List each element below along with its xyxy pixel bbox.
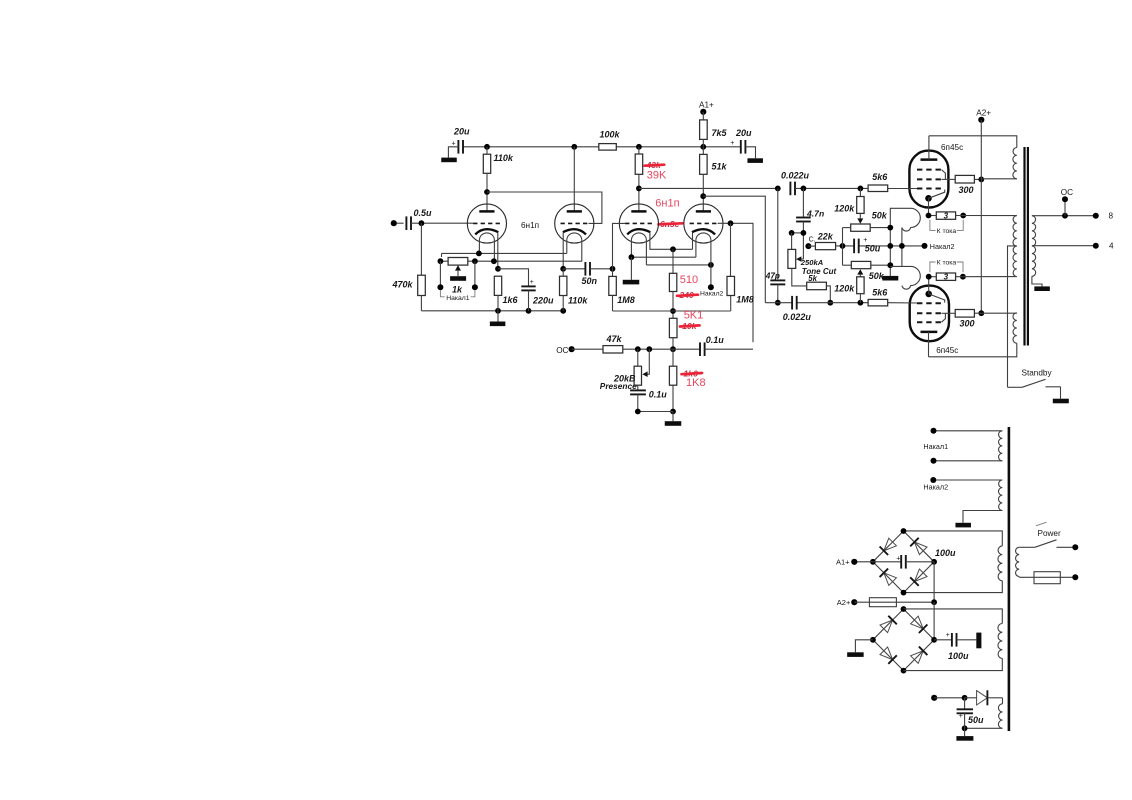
- svg-text:5k: 5k: [808, 274, 817, 283]
- resistor R 5K1 (was 10k): [669, 318, 677, 337]
- resistor R 5k6 lower: [868, 287, 888, 306]
- wire: ground bus right: [889, 208, 891, 276]
- svg-text:OC: OC: [556, 346, 568, 355]
- heater V2a: [631, 233, 646, 265]
- resistor R 7k5: [700, 112, 728, 140]
- wire: V2b grid: [718, 223, 753, 342]
- wire: secondary 8ohm: [1032, 215, 1096, 217]
- resistor R 1M8 right: [727, 223, 754, 304]
- wire: cathode node to 220u: [498, 269, 529, 287]
- wire: pot left bus: [842, 228, 844, 266]
- node: feedback: [670, 346, 676, 352]
- node: tone pot top b: [801, 230, 807, 236]
- node: rail/1k6: [495, 308, 501, 314]
- capacitor C 0.022u bottom: [783, 296, 812, 322]
- terminal: Nakal2 PI: [700, 265, 724, 298]
- wire: 110k to rail: [562, 296, 564, 311]
- diode D6 NE: [911, 616, 928, 633]
- wire: V1b plate: [573, 147, 575, 212]
- svg-text:5k6: 5k6: [872, 172, 888, 182]
- wire: g1 upper: [888, 188, 917, 190]
- node: pot left: [438, 258, 444, 264]
- wire: V1a plate to V1b grid: [487, 192, 602, 223]
- wire: bias line: [836, 245, 925, 247]
- svg-text:39K: 39K: [647, 170, 667, 182]
- triode V2a 6n1p: [619, 204, 658, 243]
- svg-text:3: 3: [944, 273, 949, 282]
- fuse A2+: [869, 598, 896, 607]
- label: crossed 240: [677, 290, 698, 300]
- node: plate line/0.022u top: [775, 186, 781, 192]
- node: presence wiper: [646, 346, 652, 352]
- capacitor C 0.1u coupling: [700, 335, 724, 356]
- node: cathode lower: [926, 274, 932, 280]
- svg-text:4.7n: 4.7n: [806, 208, 824, 218]
- svg-text:Накал2: Накал2: [700, 291, 724, 298]
- svg-text:100u: 100u: [935, 548, 956, 558]
- svg-text:51k: 51k: [712, 161, 728, 171]
- node: bias/50u: [962, 695, 968, 701]
- diode D3 SW: [880, 569, 897, 586]
- node: tail rail: [670, 308, 676, 314]
- wire: 110k to V1a plate: [486, 173, 488, 211]
- wire: 20u to ground: [448, 147, 458, 158]
- svg-text:+: +: [730, 140, 734, 147]
- wiper: upper 50k from 120k: [857, 213, 863, 223]
- switch Standby: [1008, 368, 1061, 387]
- capacitor C 50n: [582, 262, 598, 286]
- label: crossed 6p3s: [659, 219, 683, 229]
- svg-text:120k: 120k: [834, 204, 855, 214]
- svg-text:7k5: 7k5: [712, 128, 728, 138]
- node: pot right: [472, 258, 478, 264]
- triode V1a 6n1p: [467, 204, 506, 243]
- node: cathode upper: [926, 213, 932, 219]
- triode V1b 6n1p: [555, 204, 594, 243]
- svg-text:47p: 47p: [765, 271, 780, 280]
- svg-text:0.022u: 0.022u: [781, 170, 810, 180]
- core: power transformer: [1008, 427, 1011, 731]
- wire: bias line PSU: [934, 697, 964, 699]
- svg-text:0.022u: 0.022u: [783, 312, 812, 322]
- terminal: Nakal1 right: [472, 261, 478, 290]
- terminal: Nakal2 output: [922, 242, 955, 251]
- svg-text:+: +: [959, 713, 963, 720]
- wire: presence wiper arm: [642, 349, 649, 377]
- wiper: lower 50k from 120k: [857, 269, 863, 277]
- wire: V2a cathode: [650, 232, 693, 249]
- svg-text:20u: 20u: [735, 128, 752, 138]
- node: V2a heater gnd: [629, 254, 635, 260]
- svg-text:3: 3: [944, 211, 949, 220]
- node: bridge2 top: [901, 606, 907, 612]
- transformer OPT primary S3: [1013, 313, 1017, 343]
- wire: V2a plate line: [639, 187, 778, 189]
- svg-text:510: 510: [680, 274, 698, 286]
- wire: g1 lower: [888, 302, 917, 304]
- label: K toka upper: [930, 220, 963, 235]
- resistor R 22k: [808, 232, 835, 250]
- capacitor C 100u bridge1: [873, 548, 956, 568]
- wire: 5k to bottom line: [826, 286, 830, 303]
- resistor R 3 lower: [929, 273, 956, 282]
- node: bridge1 top: [901, 528, 907, 534]
- svg-text:250kA: 250kA: [800, 258, 823, 267]
- node: 47p/bottom line: [775, 300, 781, 306]
- svg-text:5K1: 5K1: [684, 310, 704, 322]
- resistor R 5k6 upper: [868, 172, 888, 191]
- svg-text:4: 4: [1109, 241, 1114, 250]
- resistor R 470k: [392, 275, 426, 295]
- wire: bridge2 top stub: [903, 608, 905, 610]
- wire: 1M8L to tail: [612, 295, 614, 311]
- svg-text:+: +: [896, 555, 900, 562]
- node: gnd bus/lower pot: [887, 262, 893, 268]
- resistor R 5k tone: [807, 274, 827, 290]
- svg-text:Presence: Presence: [600, 381, 637, 391]
- svg-text:+: +: [530, 279, 534, 286]
- diode D7 SW: [880, 647, 897, 664]
- svg-text:120k: 120k: [834, 283, 855, 293]
- resistor R 110k (V1a plate): [483, 147, 514, 174]
- svg-text:0.5u: 0.5u: [414, 208, 433, 218]
- potentiometer 50k upper: [843, 210, 891, 231]
- svg-text:470k: 470k: [392, 279, 414, 289]
- wire: C1 to grid node V1a: [411, 222, 473, 224]
- switch Power: [1019, 522, 1075, 547]
- wire: OC to 47k: [572, 348, 603, 350]
- wire: 0.1u to V2b grid line: [705, 348, 753, 350]
- terminal: 8 ohm: [1093, 212, 1114, 221]
- svg-text:A1+: A1+: [836, 558, 850, 567]
- node: V2b plate top: [700, 144, 706, 150]
- node: A2+/bridges: [931, 599, 937, 605]
- transformer OPT primary S2: [1013, 216, 1017, 277]
- svg-text:1K8: 1K8: [686, 377, 706, 389]
- svg-text:Standby: Standby: [1022, 368, 1053, 377]
- transformer winding HV2: [998, 624, 1002, 659]
- capacitor 20u decoupling right: [730, 128, 752, 154]
- resistor R 110k (V1b cathode): [560, 269, 589, 306]
- wire: tone pot bottom: [792, 268, 807, 286]
- node: rail/V1b plate: [571, 144, 577, 150]
- ground: pots bus: [882, 276, 898, 281]
- capacitor C 50u PSU: [957, 698, 984, 729]
- wire: 5K1 to fb node: [672, 338, 674, 350]
- resistor R 1M8 left: [609, 269, 635, 305]
- svg-text:A1+: A1+: [699, 101, 714, 110]
- transformer winding Nakal2: [998, 480, 1002, 511]
- wire: 20u to ground right: [745, 147, 755, 159]
- node: 1K8 gnd: [670, 409, 676, 415]
- svg-text:5k6: 5k6: [872, 287, 888, 297]
- wire: V1a cathode: [497, 232, 499, 268]
- svg-text:110k: 110k: [494, 153, 514, 163]
- svg-text:110k: 110k: [568, 295, 588, 305]
- svg-text:50u: 50u: [968, 715, 984, 725]
- diode D1 NW: [880, 538, 897, 555]
- ground: standby: [1053, 387, 1069, 404]
- resistor R 300 upper: [955, 175, 974, 194]
- wire: bottom grid line: [765, 302, 868, 304]
- wire: 220u to rail: [528, 290, 530, 310]
- node: bias/pots: [840, 243, 846, 249]
- svg-text:20u: 20u: [453, 127, 470, 137]
- node: A2+/screen lower: [978, 310, 984, 316]
- wire: 39K to V2a plate: [638, 174, 640, 211]
- transformer winding bias: [998, 698, 1002, 729]
- node: bottom grid/120k: [858, 300, 864, 306]
- node: heater B / V1a: [476, 251, 482, 257]
- terminal: Nakal1 left: [437, 261, 443, 290]
- wire: 300L to S3: [974, 312, 1016, 314]
- wire: 0.022u to 5k6 top: [795, 187, 868, 189]
- node: bridge1 bottom: [901, 590, 907, 596]
- capacitor C 220u: [521, 279, 554, 305]
- node: bridge2 left: [870, 637, 876, 643]
- label: 1K8 red: [686, 377, 706, 389]
- node: PI grid / 1M8: [610, 266, 616, 272]
- wire: 1K8 to gnd node: [672, 385, 674, 411]
- label: 6p45s upper: [941, 143, 963, 152]
- wire: bridge1 minus to A2+ line: [933, 562, 935, 602]
- transformer OPT secondary: [1032, 216, 1036, 277]
- ground: bias: [956, 728, 973, 740]
- wire: grid node down to R 470k: [420, 223, 422, 275]
- rectifier bridge 2 frame: [873, 609, 934, 671]
- node: heater C / V1a: [491, 258, 497, 264]
- svg-text:OC: OC: [1061, 188, 1073, 197]
- label: 510 red: [680, 274, 698, 286]
- svg-text:A2+: A2+: [837, 598, 851, 607]
- wire: 300 to A2+ bus: [974, 178, 981, 180]
- node: heaters/Nakal2: [899, 243, 905, 249]
- node: rail/110k V1a: [484, 144, 490, 150]
- wire: input to C1: [397, 222, 404, 224]
- resistor R 100k: [599, 130, 621, 151]
- terminal: A1+ PSU: [836, 558, 873, 567]
- label: 6n1p red (V2): [655, 197, 679, 209]
- node: rail/110k: [560, 308, 566, 314]
- node: V2b plate: [700, 193, 706, 199]
- wire: upper cathode to S2: [956, 215, 1017, 217]
- terminal: A2+: [976, 108, 991, 123]
- svg-text:C.: C.: [809, 237, 816, 244]
- capacitor C 4.7n: [796, 188, 824, 221]
- wire: screen lower: [942, 312, 956, 314]
- wire: V2b plate line: [703, 196, 765, 303]
- ground: left 20u: [441, 158, 457, 163]
- ground: secondary: [1032, 276, 1050, 291]
- ground: presence: [665, 412, 682, 426]
- ground: stage1 rail: [490, 311, 506, 326]
- wire: cathode to 50n: [563, 268, 585, 270]
- node: presence gnd: [635, 409, 641, 415]
- capacitor C 50u bias: [854, 237, 881, 253]
- node: V1a cathode/1k6: [495, 266, 501, 272]
- wire: S1 bottom to A2+ node: [981, 178, 1017, 180]
- wire: heater line B: [442, 253, 567, 257]
- triode V2b 6n1p: [684, 204, 723, 243]
- svg-text:100u: 100u: [948, 651, 969, 661]
- wire: V2b cathode: [692, 232, 694, 249]
- node: bridge2 bottom: [901, 668, 907, 674]
- svg-text:Накал1: Накал1: [923, 442, 948, 451]
- node: A2+/screen upper: [978, 177, 984, 183]
- capacitor C 47p: [765, 188, 786, 302]
- svg-text:6н1п: 6н1п: [655, 197, 679, 209]
- potentiometer 250kA Tone Cut: [788, 233, 837, 276]
- label: crossed 10k: [680, 321, 700, 331]
- node: 5k/bottom line: [827, 300, 833, 306]
- label: 5K1 red: [684, 310, 704, 322]
- heater: lower 6p45s: [890, 266, 920, 289]
- label: Nakal1 PT: [923, 442, 948, 451]
- wire: 51k to V2b plate: [702, 174, 704, 211]
- svg-text:6н1п: 6н1п: [521, 221, 539, 230]
- wire: upper plate to OPT: [929, 136, 1017, 148]
- svg-text:50n: 50n: [582, 276, 598, 286]
- wire: HV2 bottom to bridge2: [904, 658, 1003, 670]
- svg-text:220u: 220u: [532, 295, 554, 305]
- wire: HV2 top to bridge2: [904, 609, 1003, 624]
- node: V1a plate: [484, 189, 490, 195]
- wire: 4.7n to tone pot: [792, 222, 804, 260]
- capacitor C-in 0.5u: [406, 208, 432, 230]
- svg-text:47k: 47k: [606, 334, 623, 344]
- label: K toka lower: [930, 259, 963, 272]
- node: top grid/4.7n: [801, 186, 807, 192]
- transformer winding Nakal1: [999, 431, 1003, 461]
- wire: A2+ bus: [980, 120, 982, 313]
- node: V1b cathode: [560, 266, 566, 272]
- core: OPT: [1023, 147, 1029, 346]
- node: 3-right lower: [960, 274, 966, 280]
- wire: decoupled B+ rail: [463, 146, 741, 148]
- wire: 50n to PI grid: [590, 268, 613, 270]
- node: V2b grid/1M8: [728, 220, 734, 226]
- node: rail/39K: [636, 144, 642, 150]
- wire: heater line C: [440, 260, 582, 262]
- svg-text:0.1u: 0.1u: [649, 389, 668, 399]
- node: 8ohm/OC: [1062, 213, 1068, 219]
- wire: V1b cathode: [562, 232, 564, 268]
- capacitor C 100u bridge2: [934, 632, 976, 661]
- ground: humdinger wiper: [450, 276, 466, 281]
- terminal: Nakal2 PT: [923, 477, 1002, 491]
- node: rail/220u: [526, 308, 532, 314]
- terminal: Nakal1 b: [931, 458, 1003, 464]
- node: gnd bus/upper pot: [887, 225, 893, 231]
- wire: stage1 ground rail: [421, 310, 563, 312]
- terminal: OC output: [1061, 188, 1073, 216]
- potentiometer 20kB Presence: [600, 349, 642, 391]
- potentiometer 1k humdinger: [448, 258, 468, 295]
- svg-text:22k: 22k: [817, 232, 834, 242]
- wire: S3 to lower plate: [929, 343, 1017, 357]
- node: presence top: [635, 346, 641, 352]
- terminal: OC input: [556, 346, 575, 355]
- label: crossed 1k6: [682, 368, 703, 378]
- node: bridge1 left: [870, 559, 876, 565]
- diode D5 NW: [880, 616, 897, 633]
- label: 6n1p (V1): [521, 221, 539, 230]
- svg-text:1k6: 1k6: [503, 295, 519, 305]
- svg-text:1M8: 1M8: [617, 295, 635, 305]
- heater V2b: [696, 233, 711, 265]
- svg-text:0.1u: 0.1u: [706, 335, 725, 345]
- node: top grid/120k: [858, 186, 864, 192]
- svg-text:Power: Power: [1038, 529, 1061, 538]
- wire: heater gnd line: [631, 256, 696, 258]
- diode D9 bias: [965, 690, 1003, 705]
- node: input terminal: [391, 220, 397, 226]
- node: tone pot top a: [789, 230, 795, 236]
- wire: 470k to ground rail: [420, 296, 422, 311]
- wire: tail rail (1M8 bottoms): [613, 296, 731, 312]
- terminal: mains a: [1072, 544, 1078, 550]
- wire: A2+ line: [854, 601, 934, 603]
- capacitor 0.1u presence: [630, 385, 667, 399]
- terminal: C- bias: [805, 237, 815, 250]
- resistor R 300 lower: [955, 310, 974, 329]
- heater V1a: [479, 233, 494, 261]
- svg-text:300: 300: [959, 185, 974, 195]
- svg-text:6п45с: 6п45с: [941, 143, 963, 152]
- svg-text:Tone Cut: Tone Cut: [802, 267, 837, 276]
- label: 6p45s lower: [936, 346, 958, 355]
- resistor R 39K (was 43k): [635, 147, 643, 175]
- fuse mains: [1019, 572, 1075, 584]
- label: crossed 43k: [645, 160, 665, 170]
- ground: chassis block: [976, 633, 981, 649]
- heater V1b: [567, 233, 582, 261]
- node: bias bottom: [962, 725, 968, 731]
- node: tail: [670, 246, 676, 252]
- resistor R 1K8 (was 1k6): [669, 349, 676, 385]
- transformer OPT primary S1: [1013, 148, 1017, 179]
- capacitor 20u decoupling left: [452, 127, 471, 154]
- wire: 1k6 to rail: [497, 295, 499, 310]
- svg-text:Накал2: Накал2: [930, 242, 955, 251]
- resistor R 51k: [700, 147, 728, 174]
- svg-text:+: +: [946, 632, 950, 639]
- ground: right 20u: [747, 158, 763, 163]
- node: V1a grid: [419, 220, 425, 226]
- rectifier bridge 1 frame: [873, 531, 934, 593]
- diode D2 NE: [910, 538, 927, 555]
- terminal: mains b: [1072, 574, 1078, 580]
- node: V2a plate: [636, 186, 642, 192]
- label: Nakal1 bracket: [440, 290, 475, 302]
- transformer winding HV1: [998, 546, 1002, 581]
- wire: S2 tap to standby: [1008, 246, 1017, 387]
- wire: 7k5 to rail: [702, 139, 704, 146]
- svg-text:1k: 1k: [452, 285, 463, 295]
- wire: 510 to tail rail: [672, 292, 674, 319]
- svg-text:1M8: 1M8: [736, 294, 754, 304]
- ground: PI heaters: [623, 257, 640, 284]
- node: 3-right upper: [960, 213, 966, 219]
- terminal: 4 ohm: [1093, 241, 1114, 250]
- diode D8 SE: [911, 647, 928, 664]
- svg-text:К тока: К тока: [937, 259, 957, 266]
- node: bridge1 right: [931, 559, 937, 565]
- svg-text:300: 300: [960, 319, 975, 329]
- wire: V2a grid: [613, 223, 626, 268]
- diode D4 SE: [910, 569, 927, 586]
- resistor R 120k lower: [834, 277, 864, 303]
